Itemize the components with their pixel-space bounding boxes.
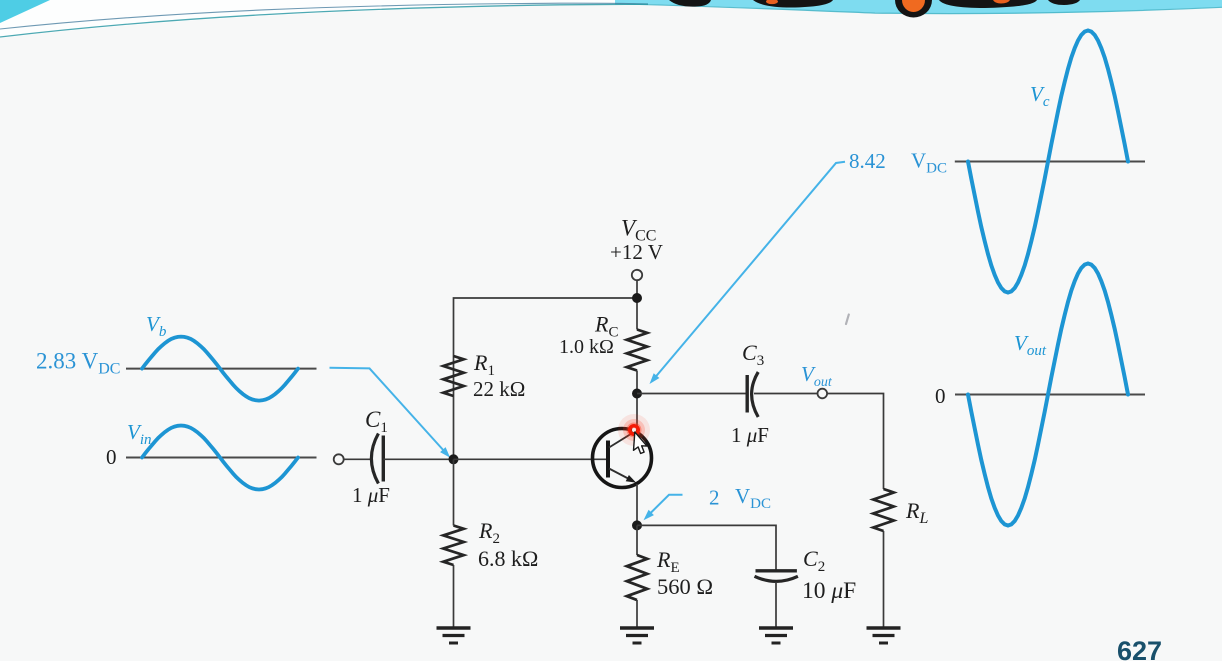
svg-text:Vc: Vc bbox=[1030, 82, 1050, 110]
label Vb bbox=[146, 312, 167, 340]
svg-text:22 kΩ: 22 kΩ bbox=[473, 377, 525, 401]
node: collector junction bbox=[632, 389, 642, 399]
wire: C2 to ground bbox=[775, 582, 777, 628]
svg-text:2.83 VDC: 2.83 VDC bbox=[36, 349, 120, 378]
wire: C3 to Vout terminal bbox=[754, 393, 818, 395]
VCC terminal (open circle) bbox=[632, 270, 642, 280]
wire: VCC to rail bbox=[636, 280, 638, 330]
Vin sine wave bbox=[142, 426, 298, 490]
mouse cursor bbox=[633, 432, 648, 454]
page number 627 bbox=[1117, 636, 1162, 661]
svg-text:VDC: VDC bbox=[911, 149, 947, 177]
label Vout (node) bbox=[801, 362, 833, 390]
wire: RC to collector node bbox=[636, 371, 638, 433]
Vout waveform axis bbox=[955, 394, 1145, 396]
label C1 bbox=[365, 407, 388, 436]
wire: terminal to C1 bbox=[344, 458, 371, 460]
svg-text:560 Ω: 560 Ω bbox=[657, 574, 713, 599]
banner swoosh curve upper bbox=[0, 3, 648, 29]
svg-text:8.42: 8.42 bbox=[849, 149, 886, 173]
svg-text:1 μF: 1 μF bbox=[731, 423, 769, 447]
Vout terminal (open circle) bbox=[818, 389, 828, 399]
svg-text:C1: C1 bbox=[365, 407, 388, 436]
stray mark bbox=[846, 315, 849, 325]
resistor RL bbox=[873, 489, 893, 531]
svg-text:2: 2 bbox=[709, 486, 720, 510]
wire: top rail bbox=[454, 298, 638, 459]
banner top-left corner triangle bbox=[0, 0, 50, 23]
svg-text:C3: C3 bbox=[742, 340, 764, 369]
svg-text:R2: R2 bbox=[478, 518, 500, 547]
node: base junction bbox=[449, 454, 459, 464]
label 2.83 VDC bbox=[36, 349, 120, 378]
wire: R2 to ground bbox=[453, 565, 455, 628]
label 6.8 kOhm bbox=[478, 546, 538, 571]
wire: emitter node to C2 bbox=[637, 525, 776, 569]
svg-text:1 μF: 1 μF bbox=[352, 483, 390, 507]
label 10 uF bbox=[802, 578, 856, 604]
label 1 uF (C1) bbox=[352, 483, 390, 507]
red highlight dot on collector bbox=[618, 414, 650, 446]
ground (RL) bbox=[867, 628, 901, 643]
resistor RC bbox=[627, 330, 647, 371]
svg-text:C2: C2 bbox=[803, 546, 825, 575]
wire: collector node to C3 bbox=[637, 393, 746, 395]
svg-text:0: 0 bbox=[935, 384, 946, 408]
wire: RE to ground bbox=[636, 600, 638, 628]
svg-text:VDC: VDC bbox=[735, 484, 771, 512]
capacitor C2 bbox=[755, 571, 798, 582]
wire: C1 to base node bbox=[383, 458, 453, 460]
Vc sine wave bbox=[968, 31, 1128, 293]
Vb waveform axis bbox=[126, 368, 317, 370]
banner white top area bbox=[0, 0, 1222, 38]
wire: emitter down bbox=[636, 484, 638, 525]
label 22 kOhm bbox=[473, 377, 525, 401]
input terminal (open circle) bbox=[334, 454, 344, 464]
resistor R2 bbox=[443, 526, 463, 566]
banner cyan band bbox=[615, 0, 1222, 13]
label 1.0 kOhm bbox=[559, 336, 614, 358]
svg-text:10 μF: 10 μF bbox=[802, 578, 856, 604]
node: emitter junction bbox=[632, 520, 642, 530]
label 0 (Vin axis) bbox=[106, 445, 117, 469]
wire: emitter node to RE bbox=[636, 525, 638, 555]
label R2 bbox=[478, 518, 500, 547]
wire: Vout to RL bbox=[827, 394, 883, 490]
wire: base node to R2 bbox=[453, 459, 455, 525]
svg-text:Vb: Vb bbox=[146, 312, 167, 340]
annotation arrow 8.42 VDC to collector node bbox=[650, 162, 846, 384]
label VCC bbox=[621, 216, 656, 245]
wire: RL to ground bbox=[883, 531, 885, 628]
label 1 uF (C3) bbox=[731, 423, 769, 447]
ground (C2) bbox=[759, 628, 793, 643]
label RL bbox=[905, 498, 928, 527]
label 560 Ohm bbox=[657, 574, 713, 599]
banner swoosh curve lower bbox=[0, 4, 648, 37]
svg-text:+12 V: +12 V bbox=[610, 240, 663, 264]
capacitor C1 bbox=[371, 434, 383, 484]
label RC bbox=[594, 312, 618, 341]
label C2 bbox=[803, 546, 825, 575]
banner band edge line bbox=[615, 4, 1222, 14]
label 0 (Vout axis) bbox=[935, 384, 946, 408]
label Vc bbox=[1030, 82, 1050, 110]
svg-text:1.0 kΩ: 1.0 kΩ bbox=[559, 336, 614, 358]
svg-text:6.8 kΩ: 6.8 kΩ bbox=[478, 546, 538, 571]
svg-text:0: 0 bbox=[106, 445, 117, 469]
label RE bbox=[656, 547, 680, 576]
Vin waveform axis bbox=[126, 457, 317, 459]
node: VCC rail junction bbox=[632, 293, 642, 303]
ground (R2) bbox=[437, 628, 471, 643]
resistor R1 bbox=[443, 356, 463, 396]
label 8.42 VDC bbox=[849, 149, 947, 177]
Vc waveform axis bbox=[955, 161, 1145, 163]
label 2 VDC bbox=[709, 484, 771, 512]
annotation arrow Vb to base node bbox=[330, 368, 451, 458]
transistor Q1 bbox=[593, 429, 652, 488]
Vout sine wave bbox=[968, 264, 1128, 526]
Vb sine wave bbox=[142, 337, 298, 401]
wire: base bbox=[454, 458, 607, 460]
ground (RE) bbox=[620, 628, 654, 643]
capacitor C3 bbox=[747, 372, 758, 417]
label R1 bbox=[473, 350, 495, 379]
svg-text:Vin: Vin bbox=[127, 420, 152, 448]
svg-text:627: 627 bbox=[1117, 636, 1162, 661]
svg-text:Vout: Vout bbox=[801, 362, 833, 390]
label Vin bbox=[127, 420, 152, 448]
label +12 V bbox=[610, 240, 663, 264]
svg-text:RE: RE bbox=[656, 547, 680, 576]
label C3 bbox=[742, 340, 764, 369]
banner calligraphy fragments bbox=[669, 0, 1080, 18]
annotation arrow 2 VDC to emitter node bbox=[644, 495, 683, 520]
svg-text:Vout: Vout bbox=[1014, 331, 1047, 359]
svg-text:RL: RL bbox=[905, 498, 928, 527]
svg-text:R1: R1 bbox=[473, 350, 495, 379]
label Vout (waveform) bbox=[1014, 331, 1047, 359]
resistor RE bbox=[627, 555, 647, 600]
